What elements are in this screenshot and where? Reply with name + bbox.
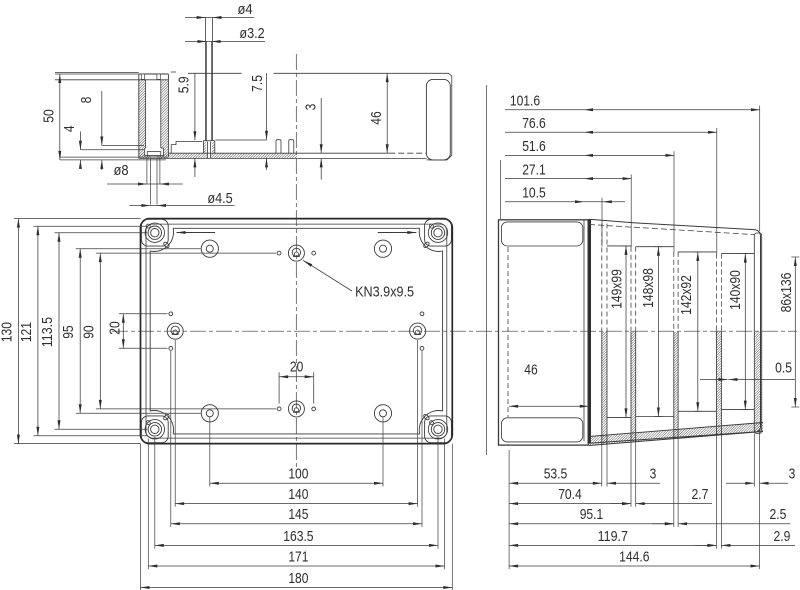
svg-text:3: 3 bbox=[789, 467, 796, 483]
white: hole through floor under recess bbox=[150, 156, 157, 159]
inner wall arc around boss 1 bbox=[150, 228, 173, 251]
hatch: boss material below head recess bbox=[145, 156, 164, 159]
corner screw boss 4 bbox=[425, 416, 452, 443]
corner clip nub 4 bbox=[423, 413, 430, 420]
section top edge line bbox=[188, 72, 242, 74]
svg-text:3: 3 bbox=[304, 104, 320, 111]
lid hidden top inner line bbox=[589, 225, 754, 235]
svg-text:KN3.9x9.5: KN3.9x9.5 bbox=[355, 285, 414, 301]
svg-text:53.5: 53.5 bbox=[544, 467, 568, 483]
flanking pilot holes left/right bosses bbox=[169, 312, 173, 316]
step lines inner bottom bbox=[607, 416, 631, 418]
ledge step right of boss bbox=[171, 142, 202, 154]
box corner boss bar top bbox=[501, 222, 582, 246]
svg-text:180: 180 bbox=[288, 571, 308, 587]
svg-text:ø4.5: ø4.5 bbox=[207, 191, 232, 207]
wall outlines below centreline bbox=[601, 332, 603, 445]
svg-text:163.5: 163.5 bbox=[283, 529, 313, 545]
flange interface thick line bbox=[588, 219, 591, 443]
hatch: right end wall below centreline bbox=[754, 332, 761, 433]
svg-text:119.7: 119.7 bbox=[598, 529, 628, 545]
svg-text:171: 171 bbox=[288, 550, 308, 566]
box block side elevation (left) bbox=[499, 220, 589, 445]
svg-text:46: 46 bbox=[369, 111, 385, 124]
svg-text:95: 95 bbox=[61, 325, 77, 338]
floor top line exterior half bbox=[297, 152, 390, 154]
floor screw tube outline bbox=[203, 141, 205, 154]
screw shaft core o3.2 bbox=[206, 42, 208, 142]
svg-text:149x99: 149x99 bbox=[610, 269, 626, 309]
corner clip nub 3 bbox=[163, 413, 170, 420]
white: tube hole through floor bbox=[208, 153, 211, 158]
right end wall outline bbox=[754, 233, 761, 434]
vent slot stubs on floor bbox=[276, 140, 281, 154]
svg-text:130: 130 bbox=[0, 322, 15, 342]
flanking pilot holes bbox=[277, 407, 281, 411]
svg-text:140x90: 140x90 bbox=[728, 270, 744, 310]
screw head recess outline bbox=[145, 148, 164, 156]
outer pocket arc 4 bbox=[429, 421, 433, 425]
bottom edge under corner block bbox=[426, 159, 447, 161]
svg-text:145: 145 bbox=[288, 507, 308, 523]
boss top edge bbox=[139, 73, 169, 75]
direction arrows inside box top bbox=[177, 232, 216, 234]
white: boss screw channel bbox=[146, 80, 161, 148]
extension lines bottom dims right view bbox=[508, 450, 510, 569]
svg-text:10.5: 10.5 bbox=[522, 186, 546, 202]
bottom band top edge bbox=[589, 423, 763, 437]
svg-text:100: 100 bbox=[288, 467, 308, 483]
second wall line bbox=[146, 224, 447, 438]
outer pocket arc 1 bbox=[146, 224, 150, 228]
svg-text:ø4: ø4 bbox=[237, 2, 252, 18]
screw head drawn inside recess bbox=[147, 152, 161, 156]
inner wall arc around boss 2 bbox=[419, 228, 442, 251]
hidden floor line (dashed) behind corner block bbox=[389, 152, 426, 154]
seal pin slots at boss top bbox=[141, 74, 144, 79]
screw shaft o4 bbox=[205, 18, 207, 142]
svg-text:27.1: 27.1 bbox=[522, 162, 546, 178]
projection line between views bbox=[486, 85, 488, 455]
centre screw bosses KN type top/bottom bbox=[288, 245, 304, 261]
corner screw boss 2 bbox=[425, 219, 452, 246]
corner boss block at right end bbox=[426, 79, 450, 159]
svg-text:140: 140 bbox=[288, 487, 308, 503]
vertical centreline bbox=[295, 54, 297, 473]
inner wall opening sides bbox=[149, 251, 151, 412]
svg-text:ø8: ø8 bbox=[113, 163, 128, 179]
svg-text:86x136: 86x136 bbox=[779, 273, 795, 313]
hidden wall edges above centreline (dashed) bbox=[601, 224, 603, 332]
svg-text:8: 8 bbox=[79, 97, 95, 104]
boss screw channel walls bbox=[145, 80, 147, 148]
svg-text:7.5: 7.5 bbox=[250, 75, 266, 92]
extension lines top dims bbox=[601, 198, 603, 247]
svg-text:2.9: 2.9 bbox=[774, 529, 791, 545]
flanking pilot holes bbox=[277, 251, 281, 255]
svg-text:3: 3 bbox=[650, 467, 657, 483]
hatch: corner screw boss left wall bbox=[139, 80, 146, 148]
exterior top edge right half bbox=[296, 73, 452, 160]
extension lines below boss for o8 bbox=[146, 158, 148, 183]
svg-text:101.6: 101.6 bbox=[510, 94, 540, 110]
svg-text:148x98: 148x98 bbox=[641, 268, 657, 308]
base floor outline bbox=[168, 152, 296, 154]
svg-text:5.9: 5.9 bbox=[176, 76, 192, 93]
extension lines below boss for o4.5 bbox=[149, 158, 151, 204]
inner wall arc around boss 4 bbox=[419, 411, 442, 434]
svg-text:20: 20 bbox=[290, 360, 303, 376]
box corner boss bar bottom bbox=[501, 418, 582, 442]
hidden floor line in box block bbox=[507, 247, 509, 417]
corner clip nub 2 bbox=[423, 241, 430, 248]
step lines inner top bbox=[607, 245, 631, 247]
svg-text:ø3.2: ø3.2 bbox=[239, 26, 264, 42]
horizontal centreline bbox=[112, 330, 797, 332]
svg-text:50: 50 bbox=[42, 109, 58, 122]
white: o8 screw head recess bbox=[145, 148, 164, 156]
svg-text:95.1: 95.1 bbox=[580, 507, 604, 523]
four inner mounting holes bbox=[201, 240, 218, 257]
svg-text:46: 46 bbox=[524, 363, 537, 379]
svg-text:142x92: 142x92 bbox=[679, 275, 695, 315]
svg-text:70.4: 70.4 bbox=[558, 487, 582, 503]
extension line from tube top to 7.5 dim bbox=[216, 139, 267, 141]
hatch: floor band of base bbox=[139, 153, 297, 158]
svg-text:76.6: 76.6 bbox=[522, 116, 546, 132]
hatch: sloped bottom band of lids bbox=[589, 423, 763, 446]
svg-text:90: 90 bbox=[81, 325, 97, 338]
outer wall rounded rect bbox=[141, 219, 453, 444]
svg-text:51.6: 51.6 bbox=[522, 139, 546, 155]
hatch: lid wall strips below centreline bbox=[602, 332, 607, 445]
svg-text:2.5: 2.5 bbox=[770, 507, 787, 523]
svg-text:20: 20 bbox=[108, 321, 124, 334]
inner wall arc around boss 3 bbox=[150, 411, 173, 434]
hatch: corner screw boss right wall bbox=[161, 80, 169, 159]
corner clip nub 1 bbox=[163, 241, 170, 248]
svg-text:121: 121 bbox=[19, 322, 35, 342]
centre screw bosses KN type left/right bbox=[167, 323, 183, 339]
hatch: floor screw tube walls bbox=[204, 142, 207, 154]
corner screw boss 3 bbox=[141, 416, 168, 443]
svg-text:113.5: 113.5 bbox=[40, 317, 56, 347]
corner screw boss 1 bbox=[141, 219, 168, 246]
lid outer silhouette top bbox=[589, 219, 763, 445]
boss outer walls bbox=[138, 74, 140, 158]
rim lines left of boss bbox=[60, 156, 169, 158]
outer pocket arc 2 bbox=[429, 224, 433, 228]
svg-text:0.5: 0.5 bbox=[775, 361, 792, 377]
svg-text:144.6: 144.6 bbox=[619, 550, 649, 566]
boss chamfer line / lid top wall line bbox=[55, 79, 168, 81]
outer pocket arc 3 bbox=[146, 421, 150, 425]
svg-text:4: 4 bbox=[62, 125, 78, 132]
svg-text:2.7: 2.7 bbox=[692, 487, 709, 503]
